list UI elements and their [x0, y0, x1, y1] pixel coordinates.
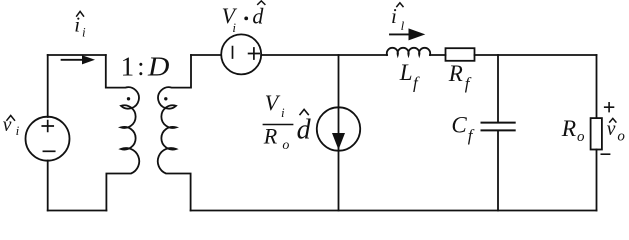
- svg-text::: :: [137, 52, 144, 81]
- current arrow i_i: [62, 59, 84, 61]
- svg-text:R: R: [263, 124, 278, 149]
- wire capacitor branch top: [497, 55, 499, 123]
- wire right side top: [596, 55, 598, 118]
- svg-text:v: v: [3, 115, 12, 136]
- arrowhead i_l: [409, 28, 426, 40]
- svg-text:D: D: [147, 52, 170, 82]
- svg-text:R: R: [561, 116, 576, 142]
- svg-text:o: o: [577, 129, 585, 145]
- arrowhead i_i: [82, 55, 95, 64]
- label i_i hat: [76, 11, 84, 16]
- svg-text:f: f: [468, 126, 475, 145]
- wire top middle: [261, 54, 387, 56]
- svg-text:i: i: [82, 25, 86, 40]
- current source circle: [317, 107, 360, 150]
- svg-text:f: f: [465, 74, 472, 93]
- svg-text:i: i: [281, 105, 285, 120]
- resistor Rf: [446, 48, 475, 61]
- plus sign output: [604, 102, 614, 112]
- svg-text:l: l: [401, 18, 405, 33]
- svg-text:i: i: [232, 20, 236, 35]
- label v_i hat: [6, 116, 15, 121]
- transformer primary winding: [106, 55, 139, 211]
- svg-text:i: i: [391, 4, 397, 28]
- resistor Ro: [591, 118, 602, 149]
- wire left source top lead: [47, 55, 49, 117]
- svg-text:d: d: [252, 4, 264, 29]
- svg-text:i: i: [16, 123, 20, 138]
- current arrow i_l: [390, 33, 409, 35]
- wire bottom-left: [48, 210, 107, 212]
- wire top-left loop: [48, 54, 106, 56]
- plus sign inside v_i: [42, 121, 53, 132]
- wire right side bottom: [596, 150, 598, 211]
- label Vi*d hat: [257, 1, 265, 5]
- label v_o hat: [609, 118, 616, 122]
- wire inductor to Rf: [430, 54, 446, 56]
- wire left source bottom lead: [47, 161, 49, 211]
- wire capacitor branch bottom: [497, 130, 499, 210]
- voltage source v_i: [26, 117, 70, 161]
- svg-text:R: R: [448, 61, 463, 86]
- minus bar inside Vi*d: [232, 47, 234, 58]
- svg-text:L: L: [399, 60, 413, 85]
- wire current source branch: [338, 55, 340, 211]
- svg-text:1: 1: [121, 52, 135, 82]
- svg-text:f: f: [413, 74, 420, 93]
- dot secondary winding: [164, 97, 167, 100]
- svg-text:V: V: [265, 90, 281, 115]
- svg-text:o: o: [617, 128, 625, 144]
- capacitor Cf top plate: [482, 122, 515, 124]
- label d hat of fraction: [300, 109, 309, 115]
- dot primary winding: [127, 97, 130, 100]
- label i_l hat: [396, 3, 403, 7]
- arrowhead current source: [332, 133, 345, 150]
- svg-text:o: o: [282, 138, 289, 153]
- wire secondary top to source Vd: [191, 54, 221, 56]
- minus sign output: [601, 153, 611, 155]
- svg-text:i: i: [74, 13, 80, 37]
- wire Rf to right corner: [475, 54, 597, 56]
- capacitor Cf bottom plate: [482, 129, 515, 131]
- fraction bar: [263, 124, 294, 126]
- inductor Lf: [387, 48, 430, 55]
- svg-text:d: d: [297, 115, 312, 146]
- minus sign inside v_i: [43, 150, 54, 152]
- wire bottom main: [191, 210, 597, 212]
- voltage source Vi*d: [221, 34, 261, 74]
- plus sign inside Vi*d: [249, 48, 260, 59]
- svg-text:C: C: [451, 112, 467, 137]
- label Vi*d middot: [244, 17, 248, 21]
- transformer secondary winding: [158, 55, 191, 211]
- svg-text:v: v: [607, 119, 616, 140]
